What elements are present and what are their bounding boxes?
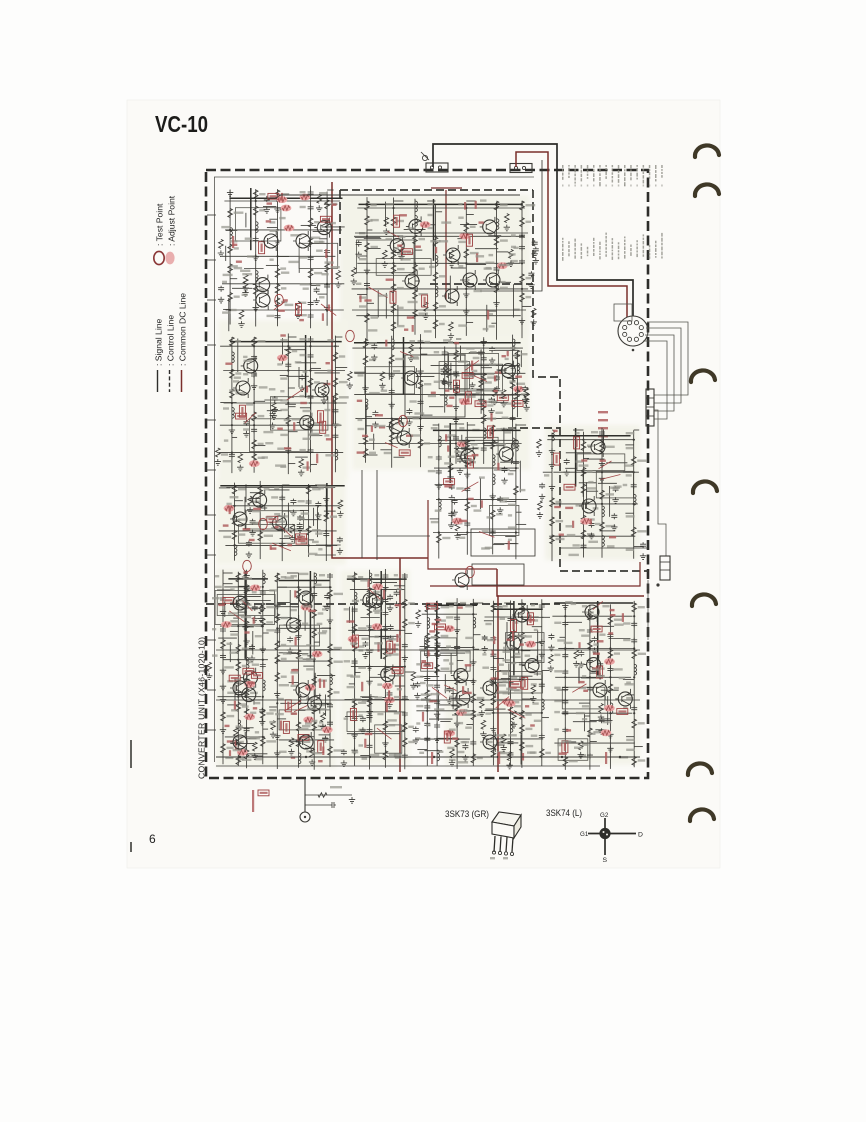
value label [242,648,251,650]
resistor R11s3 [317,194,322,203]
node [326,309,328,311]
ground [533,258,539,264]
value label [278,698,284,700]
resistor R2251 [494,284,499,293]
resistor R2240 [464,249,469,258]
control line leader [274,302,285,310]
signal line thick vertical [380,571,382,659]
resistor R1115 [253,285,258,294]
value label [419,649,426,651]
common dc line lower horizontal 1 [497,595,644,597]
wire [313,573,315,770]
value label [306,658,311,660]
red label box [468,456,474,468]
node [253,345,255,347]
capacitor C1112 [253,237,259,243]
transistor Q770 [270,513,287,533]
transistor Q222 [387,236,404,256]
node [391,418,393,420]
value label [374,696,382,698]
value label [496,428,502,430]
red annotation [300,402,307,404]
capacitor C6613 [464,486,470,492]
coil L3347 [335,449,337,460]
value label [300,206,306,208]
wire [360,755,369,757]
signal line thick vertical [326,483,328,517]
ground [351,748,357,754]
wire [573,429,584,431]
wire [231,337,233,473]
adjust point coil [301,604,312,611]
control line leader [601,475,621,480]
ground [453,417,459,423]
value label [473,357,480,359]
value label [439,240,448,242]
resistor R1035 [352,642,357,651]
ground [453,404,459,410]
wire [551,433,553,561]
wire [357,207,525,209]
wire loop [596,471,633,498]
wire [238,611,247,613]
capacitor C44s8 [406,408,412,414]
red annotation [362,435,368,437]
red label box [554,453,560,465]
ground [463,308,469,314]
node [436,738,438,740]
signal line thick [347,578,407,580]
svg-text:CONVERTER UNIT (X46-1020-10): CONVERTER UNIT (X46-1020-10) [197,637,207,779]
wire [450,654,452,675]
resistor R22s2 [352,268,357,277]
transistor Q1020 [305,694,322,714]
wire [451,267,467,269]
capacitor C10137 [244,727,250,733]
capacitor C5517 [581,543,587,549]
value label [408,602,415,604]
ground [220,668,226,674]
wire [625,444,633,446]
capacitor C2259 [519,259,525,265]
red label box [298,735,309,741]
transistor Q1031 [366,591,383,611]
ground [279,541,285,547]
value label [480,199,487,201]
value label [303,593,308,595]
value label [374,642,383,644]
wire [319,238,327,240]
red annotation [495,371,502,373]
capacitor C1127 [308,190,314,196]
value label [215,586,222,588]
adjust point coil [384,697,395,704]
svg-text:S: S [603,857,608,864]
resistor R11s2 [243,275,248,284]
wire [427,224,435,226]
wire [521,201,523,338]
wire [397,305,399,325]
capacitor C102s3 [287,637,293,643]
wire bundle to lower connector [654,410,666,556]
red annotation [218,604,224,606]
ground [309,759,315,765]
capacitor C10324 [367,743,373,749]
wire [247,738,257,740]
value label [371,316,379,318]
resistor R224 [365,243,370,252]
node [366,235,368,237]
ground [389,402,395,408]
ground [271,413,277,419]
resistor R334 [230,389,235,398]
node [492,531,494,533]
capacitor C10345 [402,643,408,649]
value label [439,305,446,307]
wire [366,416,373,418]
red annotation [394,644,396,653]
wire [479,478,481,509]
value label [588,481,593,483]
capacitor C66s3 [448,511,454,517]
resistor R2261 [520,293,525,302]
wire [370,694,372,723]
value label [322,737,328,739]
resistor R10128 [244,585,249,594]
value label [266,629,274,631]
wire [495,349,517,351]
red label box [296,538,307,544]
transistor Q1 2nd mix FET [261,231,278,251]
value label [521,393,528,395]
common dc line lower branch B [497,569,498,772]
ground [408,355,414,361]
wire [267,410,282,412]
wire [373,581,397,583]
resistor R1132 [308,269,313,278]
common dc line main left [332,182,428,558]
node [633,439,635,441]
ground [464,472,470,478]
adjust point coil [457,440,468,447]
value label [362,699,369,701]
wire [219,452,344,454]
wire [225,246,227,261]
value label [394,644,399,646]
ground [393,601,399,607]
value label [593,507,599,509]
value label [317,484,326,486]
wire [313,508,315,526]
resistor R557 [550,517,555,526]
wire loop [449,354,499,390]
tint patch mid-right [545,425,640,560]
value label [485,547,492,549]
red annotation [572,521,574,528]
red annotation [244,631,249,633]
value label [344,660,350,662]
value label [587,518,595,520]
wire [319,734,331,736]
wire [324,203,337,205]
value label [302,741,310,743]
resistor R10343 [403,619,408,628]
resistor R33s1 [216,448,221,457]
wire [360,696,378,698]
node [276,660,278,662]
wire [421,414,433,416]
test point TP5 [243,560,252,571]
value label [281,287,286,289]
value label [358,627,367,629]
red annotation [299,319,304,321]
capacitor C3344 [332,408,338,414]
wire bundle line 2 [646,328,681,403]
red annotation [291,669,298,671]
red annotation [325,249,327,258]
resistor R4425 [418,439,423,448]
wire [309,242,329,244]
wire [366,425,373,427]
wire [220,424,342,426]
coil L10227 [314,573,316,584]
value label [459,398,464,400]
value label [331,203,338,205]
wire [516,424,526,426]
wire [315,554,336,556]
node [313,660,315,662]
red annotation [319,679,321,689]
wire [226,505,340,507]
resistor R1043 [425,633,430,642]
coil L551 [552,430,554,441]
node [255,309,257,311]
wire [254,400,265,402]
red annotation [385,340,387,347]
capacitor C10335 [382,695,388,701]
resistor R55s7 [537,439,542,448]
value label [255,635,262,637]
wire [405,632,412,634]
node [472,680,474,682]
resistor R2248 [494,236,499,245]
value label [370,754,379,756]
control line leader [272,543,291,551]
wire [394,585,405,587]
ground [249,655,255,661]
resistor R5522 [600,490,605,499]
red label box [394,215,400,227]
ground [287,648,293,654]
wire [420,675,439,677]
ground [295,633,301,639]
ground [457,468,463,474]
resistor R6617 [490,425,495,434]
coil L2220 [415,215,417,226]
capacitor C3333 [308,394,314,400]
resistor R1124 [275,284,280,293]
wire [472,599,474,766]
adjust point coil [452,518,463,525]
signal line thick [230,341,342,343]
ground [356,252,362,258]
node [492,498,494,500]
coil L882 [445,363,447,374]
wire [553,471,639,473]
wire [352,288,528,290]
red annotation [346,620,354,622]
wire [226,487,335,489]
svg-text:: Test Point: : Test Point [155,203,165,246]
wire [354,235,525,237]
red annotation [357,400,362,402]
resistor R3332 [308,378,313,387]
ground [382,624,388,630]
value label [496,513,503,515]
red annotation [497,463,499,471]
resistor R5533 [631,527,636,536]
adjust point coil [497,262,508,269]
red annotation [479,221,484,223]
node [231,402,233,404]
resistor R101s4 [253,742,258,751]
value label [458,203,462,205]
capacitor C11s5 [314,287,320,293]
value label [442,537,450,539]
value label [291,609,297,611]
wire [415,249,422,251]
capacitor C7714 [279,526,285,532]
adjust point coil [237,749,248,756]
value label [280,339,287,341]
value label [318,487,324,489]
capacitor C77s5 [297,522,303,528]
red annotation [361,682,363,692]
wire [425,646,474,648]
wire [224,200,340,202]
value label [377,713,383,715]
signal line thick [279,580,330,582]
adjust point coil [312,651,323,658]
wire [288,396,294,398]
coil L6620 [493,474,495,485]
wire [433,424,439,426]
value label [359,305,367,307]
node [384,666,386,668]
capacitor C2257 [519,233,525,239]
red label box [267,516,278,522]
node [582,535,584,537]
svg-text:: Common DC Line: : Common DC Line [178,293,188,366]
wire [497,369,507,371]
node [255,229,257,231]
capacitor C102s5 [322,725,328,731]
node [276,309,278,311]
ground [387,635,393,641]
capacitor C227 [364,282,370,288]
ground [611,524,617,530]
signal line thick vertical [305,335,307,398]
value label [526,204,536,206]
value label [626,549,634,551]
value label [247,661,254,663]
value label [242,759,252,761]
value label [400,236,406,238]
wire [565,467,576,469]
resistor R7710 [258,532,263,541]
wire [334,336,336,473]
red annotation [307,461,309,470]
coil L4442 [513,339,515,350]
value label [306,697,313,699]
wire [421,384,423,416]
transistor Q12 2nd lo [588,437,605,457]
value label [333,424,341,426]
wire [455,342,457,464]
wire [292,606,299,608]
red label box [223,598,234,604]
wire [515,424,517,560]
wire [489,310,497,312]
signal line thick [548,435,631,437]
wire [357,262,520,264]
wire [431,364,519,366]
capacitor C1142 [324,283,330,289]
ground [504,225,510,231]
red annotation [431,392,436,394]
value label [505,431,512,433]
value label [606,493,615,495]
value label [471,443,478,445]
resistor R2218 [391,322,396,331]
resistor R10332 [383,650,388,659]
red annotation [554,506,561,508]
wire [404,228,426,230]
wire [477,389,484,391]
transistor Q1010 [239,685,256,705]
value label [460,353,466,355]
ground [299,385,305,391]
signal line thick vertical [403,337,405,394]
value label [334,593,344,595]
wire [481,367,492,369]
wire [307,655,314,657]
value label [359,258,367,260]
value label [408,301,418,303]
value label [366,649,374,651]
value label [314,241,323,243]
red label box [487,426,493,438]
red annotation [357,451,365,453]
wire [416,738,470,740]
wire [250,498,260,500]
value label [266,606,276,608]
test point TP2 [346,330,355,341]
ground [523,399,529,405]
capacitor C103s1 [387,594,393,600]
value label [227,747,234,749]
value label [302,725,310,727]
value label [344,608,349,610]
value label [468,375,474,377]
value label [389,638,397,640]
red label box [251,673,262,679]
value label [284,535,290,537]
red label box [387,641,393,653]
value label [344,718,349,720]
capacitor C6627 [513,460,519,466]
adjust point coil [303,716,314,723]
